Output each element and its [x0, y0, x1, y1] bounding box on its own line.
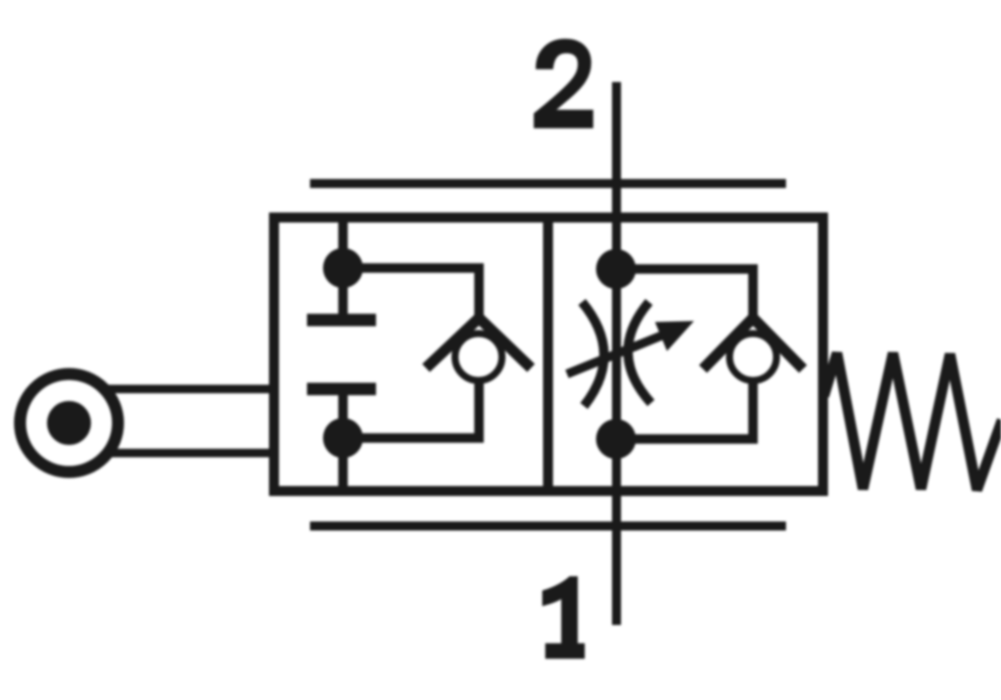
actuator plunger bottom rod [104, 449, 279, 458]
node port 2 junction left cell [323, 248, 363, 288]
blocked port T lower [307, 383, 376, 396]
roller axle dot [47, 401, 91, 445]
actuator plunger top rod [104, 385, 279, 394]
port label 2 [535, 40, 592, 127]
spring return [824, 353, 1001, 490]
node port 1 junction right cell [596, 419, 636, 459]
check valve ball left cell [455, 334, 502, 381]
blocked port T upper [307, 314, 376, 327]
port label 1 [544, 578, 584, 658]
node port 2 junction right cell [596, 249, 636, 289]
check valve ball right cell [730, 334, 777, 381]
node port 1 junction left cell [323, 418, 363, 458]
throttle left arc [582, 302, 604, 406]
wire top port rail [310, 179, 786, 188]
wire left cell upper stem [338, 218, 348, 321]
valve body two-position box [274, 218, 823, 492]
throttle adjustment arrow head [655, 321, 694, 351]
roller wheel [20, 374, 118, 472]
check valve seat right cell [703, 318, 803, 369]
position separator line [543, 218, 553, 492]
throttle adjustment arrow shaft [567, 333, 668, 374]
wire check valve loop top left cell [343, 268, 479, 319]
wire check valve loop bottom left cell [343, 378, 479, 438]
throttle right arc [628, 302, 651, 403]
wire check valve loop bottom right cell [616, 378, 753, 439]
wire left cell lower stem [338, 389, 348, 491]
wire check valve loop top right cell [616, 269, 753, 317]
wire bottom port rail [310, 522, 786, 531]
check valve seat left cell [426, 318, 531, 368]
wire vertical flow line port 2 to port 1 [612, 82, 621, 625]
